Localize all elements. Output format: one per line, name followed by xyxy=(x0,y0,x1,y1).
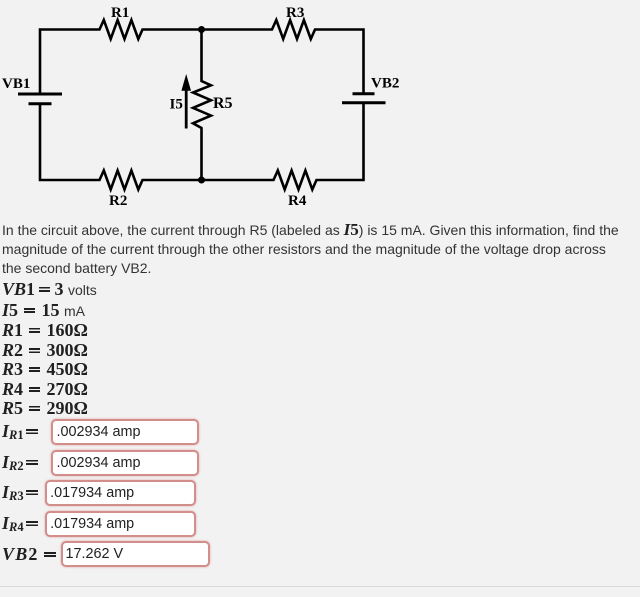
svg-text:R4: R4 xyxy=(288,193,307,209)
svg-text:R1: R1 xyxy=(111,5,129,21)
svg-text:I5: I5 xyxy=(170,97,183,113)
svg-text:R5: R5 xyxy=(213,95,233,112)
svg-text:VB2: VB2 xyxy=(371,76,399,92)
svg-text:R2: R2 xyxy=(109,193,127,209)
svg-text:R3: R3 xyxy=(286,5,304,21)
svg-text:VB1: VB1 xyxy=(2,76,30,92)
